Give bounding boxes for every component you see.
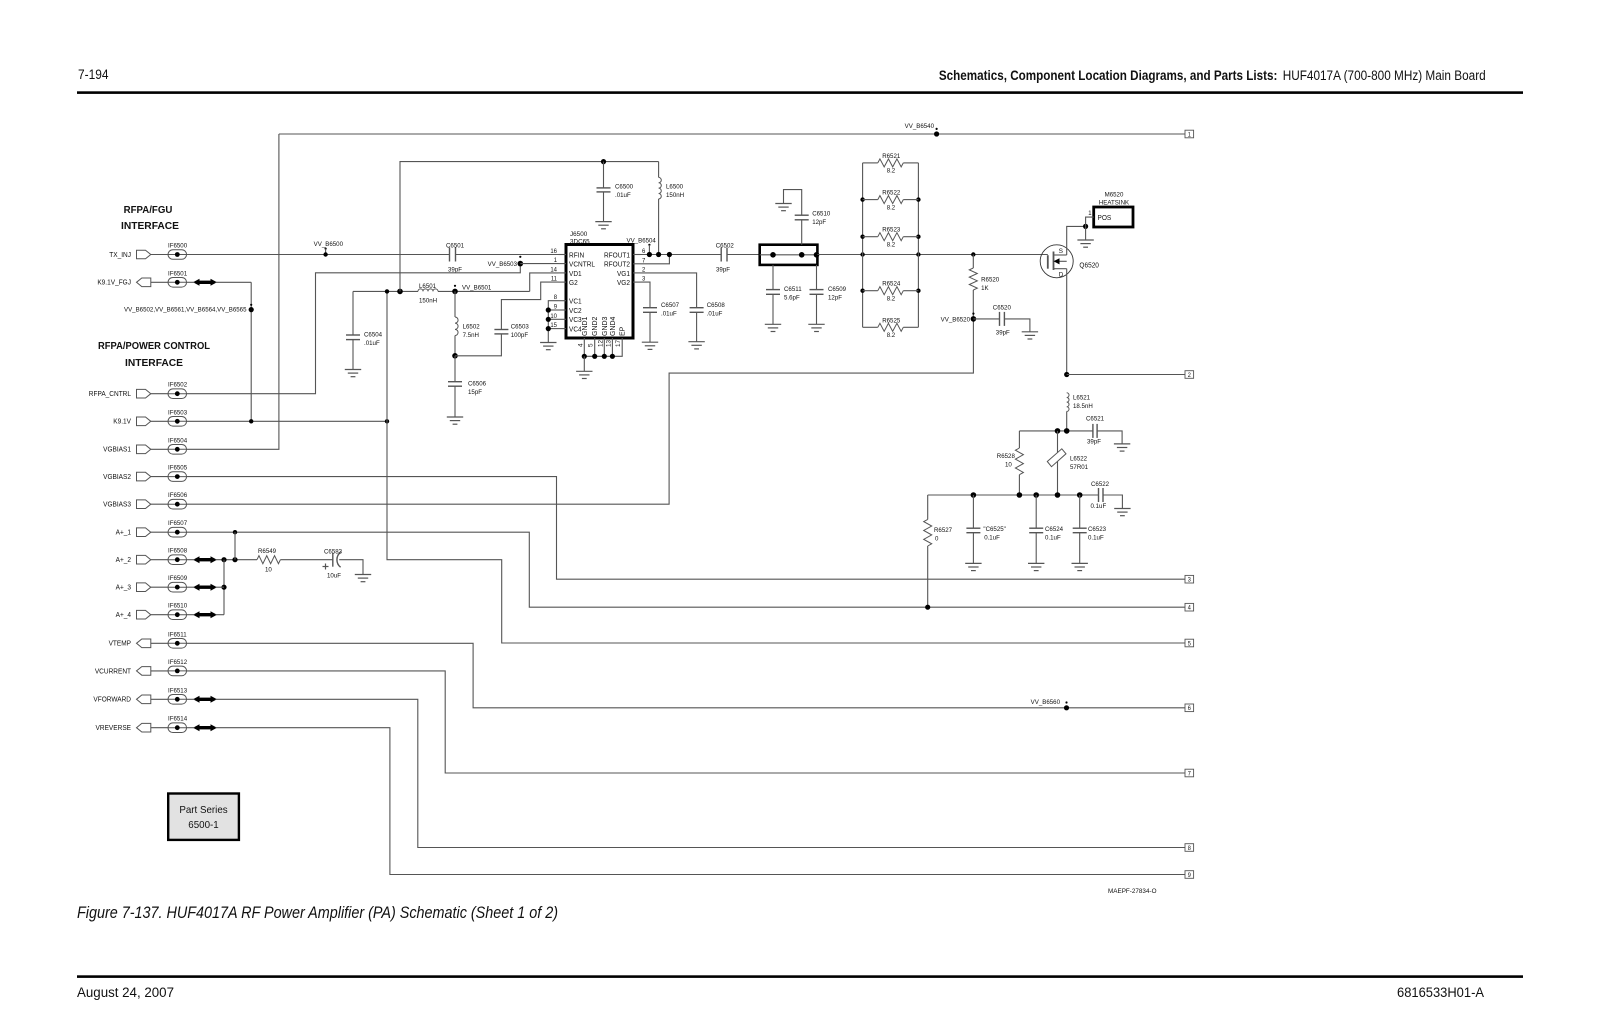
svg-text:GND3: GND3 <box>602 316 609 336</box>
ground at C6525 <box>965 563 981 570</box>
svg-text:M6520: M6520 <box>1105 192 1124 199</box>
ground at C6508 <box>688 342 704 349</box>
wire VG2 pin 3 to C6507 <box>641 282 651 308</box>
header box 9 <box>1185 871 1194 879</box>
resistor R6528 10 <box>997 431 1024 495</box>
node VV_B6502,VV_B6561,VV_B6564,VV_B6565 <box>124 304 254 314</box>
connector IF6507 A+_1 <box>116 520 188 537</box>
svg-text:16: 16 <box>550 248 557 255</box>
svg-text:VV_B6502,VV_B6561,VV_B6564,VV_: VV_B6502,VV_B6561,VV_B6564,VV_B6565 <box>124 307 247 314</box>
connector IF6503 K9.1V <box>113 409 187 426</box>
ferrite L6522 57R01 <box>1047 431 1088 495</box>
resistor R6523 8.2 <box>863 227 919 249</box>
ground at VC bus <box>540 343 556 350</box>
wire VC1-VC4 bus to ground <box>546 301 559 343</box>
wire K9.1V feed riser to supply node and down to header 5 <box>387 291 1185 643</box>
svg-text:Part Series: Part Series <box>179 804 227 816</box>
svg-text:IF6509: IF6509 <box>168 575 187 582</box>
svg-text:Figure 7-137. HUF4017A RF Powe: Figure 7-137. HUF4017A RF Power Amplifie… <box>77 904 558 922</box>
svg-text:R6521: R6521 <box>882 153 900 160</box>
svg-text:C6506: C6506 <box>468 381 486 388</box>
resistor R6525 8.2 <box>863 317 919 339</box>
svg-text:VC4: VC4 <box>569 327 582 334</box>
resistor R6520 1K <box>969 255 999 319</box>
bus segment after IF6501 <box>187 279 217 286</box>
svg-text:VC3: VC3 <box>569 317 582 324</box>
svg-text:L6522: L6522 <box>1070 456 1087 463</box>
svg-text:IF6510: IF6510 <box>168 603 187 610</box>
wire VG1 pin 2 to C6508 <box>641 273 697 308</box>
svg-text:7-194: 7-194 <box>78 67 109 82</box>
svg-text:C6583: C6583 <box>324 549 342 556</box>
svg-text:GND4: GND4 <box>610 316 617 336</box>
ground at C6520 <box>1022 332 1038 339</box>
capacitor C6501 39pF <box>446 242 464 273</box>
svg-text:8.2: 8.2 <box>887 204 896 211</box>
node VV_B6501 <box>452 285 491 295</box>
resistor R6522 8.2 <box>863 190 919 212</box>
inductor L6521 18.5nH <box>1067 393 1093 431</box>
wire VFORWARD to header 8 <box>216 699 1186 847</box>
capacitor C6520 39pF <box>973 305 1030 337</box>
svg-text:8.2: 8.2 <box>887 296 896 303</box>
svg-text:VGBIAS2: VGBIAS2 <box>103 474 131 481</box>
wire G2 pin 11 to C6503 <box>501 282 558 329</box>
svg-text:8.2: 8.2 <box>887 332 896 339</box>
svg-text:VV_B6540: VV_B6540 <box>905 123 935 130</box>
svg-text:R6523: R6523 <box>882 227 900 234</box>
wire VTEMP to header 6 <box>187 643 1185 708</box>
figure caption <box>77 904 558 922</box>
svg-text:D: D <box>1059 272 1064 279</box>
capacitor C6500 .01uF <box>597 159 634 222</box>
svg-text:VGBIAS1: VGBIAS1 <box>103 447 131 454</box>
svg-text:A+_4: A+_4 <box>116 612 131 619</box>
svg-text:GND1: GND1 <box>582 316 589 336</box>
svg-text:VG1: VG1 <box>617 271 630 278</box>
IC J6500 bottom pin names GND1-GND4 EP <box>582 316 589 336</box>
svg-text:VG2: VG2 <box>617 280 630 287</box>
svg-text:7.5nH: 7.5nH <box>463 332 480 339</box>
IC J6500 3DC65 body <box>566 231 633 338</box>
svg-text:11: 11 <box>551 276 558 283</box>
IC J6500 left pin stubs and numbers <box>550 248 566 329</box>
svg-text:IF6511: IF6511 <box>168 631 187 638</box>
footer document number <box>1397 985 1484 1000</box>
svg-text:R6524: R6524 <box>882 281 900 288</box>
svg-text:C6523: C6523 <box>1088 526 1106 533</box>
svg-text:R6520: R6520 <box>981 277 999 284</box>
svg-text:0.1uF: 0.1uF <box>1088 534 1104 541</box>
wire VREVERSE to header 9 <box>216 728 1186 875</box>
svg-text:39pF: 39pF <box>1087 438 1101 445</box>
inductor L6502 7.5nH <box>455 291 480 355</box>
title RFPA/FGU INTERFACE <box>121 205 179 232</box>
svg-text:VFORWARD: VFORWARD <box>93 697 131 704</box>
svg-text:C6511: C6511 <box>784 286 802 293</box>
svg-text:VV_B6500: VV_B6500 <box>314 241 344 248</box>
svg-text:10uF: 10uF <box>327 573 341 580</box>
capacitor C6509 12pF <box>810 265 847 324</box>
svg-text:L6501: L6501 <box>419 283 436 290</box>
svg-text:A+_2: A+_2 <box>116 557 131 564</box>
wire VCNTRL pin 1 line <box>520 263 558 265</box>
capacitor C6523 0.1uF <box>1073 495 1107 563</box>
svg-text:1K: 1K <box>981 285 989 292</box>
header box 6 <box>1185 704 1194 712</box>
svg-text:HEATSINK: HEATSINK <box>1099 200 1130 207</box>
svg-text:August 24, 2007: August 24, 2007 <box>77 985 174 1000</box>
svg-text:VV_B6560: VV_B6560 <box>1031 699 1061 706</box>
ground at C6506 <box>447 417 463 424</box>
svg-text:INTERFACE: INTERFACE <box>121 221 179 232</box>
header box 5 <box>1185 639 1194 647</box>
svg-text:.01uF: .01uF <box>661 310 677 317</box>
connector IF6510 A+_4 <box>116 603 188 620</box>
svg-text:150nH: 150nH <box>419 298 437 305</box>
ground at C6524 <box>1028 563 1044 570</box>
node VV_B6503 <box>488 256 523 269</box>
connector IF6513 VFORWARD <box>93 687 187 704</box>
svg-text:0: 0 <box>935 536 939 543</box>
capacitor C6506 15pF <box>448 356 486 417</box>
node VV_B6504 <box>627 238 657 258</box>
svg-text:VTEMP: VTEMP <box>109 641 132 648</box>
svg-text:0.1uF: 0.1uF <box>1091 503 1107 510</box>
connector IF6504 VGBIAS1 <box>103 437 187 454</box>
ground at C6509 <box>808 324 824 331</box>
IC J6500 bottom pin stubs and numbers <box>577 338 622 347</box>
svg-text:J6500: J6500 <box>570 231 587 238</box>
svg-text:VC2: VC2 <box>569 308 582 315</box>
svg-text:VV_B6503: VV_B6503 <box>488 261 518 268</box>
capacitor C6521 39pF <box>1086 416 1122 446</box>
svg-text:C6521: C6521 <box>1086 416 1104 423</box>
wire RF line through resistor ladder to gate <box>817 252 1047 256</box>
node VV_B6540 <box>905 123 940 137</box>
svg-text:RFOUT2: RFOUT2 <box>604 262 630 269</box>
svg-text:RFPA_CNTRL: RFPA_CNTRL <box>89 391 131 398</box>
wire VGBIAS2 to header 3 <box>187 477 1185 580</box>
svg-text:18.5nH: 18.5nH <box>1073 403 1093 410</box>
svg-text:14: 14 <box>550 266 557 273</box>
svg-text:10: 10 <box>1005 462 1012 469</box>
svg-text:12pF: 12pF <box>828 294 842 301</box>
wire source to heatsink junction <box>1067 224 1089 255</box>
svg-text:17: 17 <box>615 339 622 347</box>
wire A+_1 to header 4 line <box>187 530 1185 607</box>
svg-text:3DC65: 3DC65 <box>570 239 590 246</box>
header box 3 <box>1185 575 1194 583</box>
connector IF6506 VGBIAS3 <box>103 492 187 509</box>
svg-text:K9.1V: K9.1V <box>113 419 131 426</box>
svg-text:S: S <box>1059 248 1064 255</box>
svg-text:VD1: VD1 <box>569 271 582 278</box>
wire GND pins bus to ground <box>582 346 623 372</box>
svg-text:POS: POS <box>1098 215 1112 222</box>
header title <box>939 68 1486 83</box>
bus segment after IF6513 <box>187 696 217 703</box>
svg-text:C6524: C6524 <box>1045 526 1063 533</box>
wire A+_2 row <box>216 557 258 562</box>
svg-text:C6507: C6507 <box>661 302 679 309</box>
svg-text:EP: EP <box>620 326 627 336</box>
svg-text:6500-1: 6500-1 <box>188 819 219 831</box>
ground at heatsink <box>1077 240 1093 247</box>
svg-text:0.1uF: 0.1uF <box>1045 534 1061 541</box>
header page number 7-194 <box>78 67 109 82</box>
connector IF6509 A+_3 <box>116 575 188 592</box>
part series 6500-1 box <box>168 794 239 840</box>
header box 4 <box>1185 603 1194 611</box>
drawing number MAEPF-27834-O <box>1108 888 1157 895</box>
svg-text:IF6501: IF6501 <box>168 270 187 277</box>
node L6502/C6503/C6506 junction <box>452 353 458 359</box>
IC J6500 right pin stubs and numbers <box>633 248 646 283</box>
svg-text:VGBIAS3: VGBIAS3 <box>103 502 131 509</box>
capacitor C6508 .01uF <box>690 302 725 342</box>
svg-text:"C6525": "C6525" <box>983 526 1006 533</box>
svg-text:15pF: 15pF <box>468 389 482 396</box>
wire A+ tie verticals <box>221 532 235 615</box>
heatsink M6520 <box>1086 192 1133 228</box>
connector IF6501 K9.1V_FGJ <box>97 270 187 287</box>
ground at C6510 <box>775 204 791 211</box>
svg-text:VV_B6501: VV_B6501 <box>462 285 492 292</box>
junction L6500 on RFOUT1 line <box>656 252 661 257</box>
svg-text:R6549: R6549 <box>258 548 276 555</box>
svg-text:57R01: 57R01 <box>1070 464 1088 471</box>
footer date <box>77 985 174 1000</box>
svg-text:C6502: C6502 <box>716 243 734 250</box>
wire RFOUT2 pin 7 jog <box>641 252 673 264</box>
wire TX_INJ / RFIN line <box>187 254 559 256</box>
svg-text:C6520: C6520 <box>993 305 1011 312</box>
svg-text:IF6505: IF6505 <box>168 465 187 472</box>
svg-text:10: 10 <box>265 567 272 574</box>
svg-text:VREVERSE: VREVERSE <box>96 725 132 732</box>
wire K9.1V row <box>187 419 390 423</box>
ground at C6583 <box>355 575 371 582</box>
wire riser to C6500/L6500 rail <box>400 162 659 292</box>
wire heatsink junction to ground <box>1085 226 1087 240</box>
svg-text:IF6507: IF6507 <box>168 520 187 527</box>
ground at C6511 <box>765 324 781 331</box>
wire VGBIAS1 to top bus <box>187 134 279 449</box>
svg-text:VCURRENT: VCURRENT <box>95 668 132 675</box>
svg-text:VV_B6520: VV_B6520 <box>941 317 971 324</box>
svg-text:Q6520: Q6520 <box>1079 263 1099 270</box>
svg-text:IF6503: IF6503 <box>168 409 187 416</box>
svg-text:RFPA/FGU: RFPA/FGU <box>124 205 173 216</box>
resistor ladder rails <box>860 163 920 327</box>
svg-text:MAEPF-27834-O: MAEPF-27834-O <box>1108 888 1157 895</box>
svg-text:RFOUT1: RFOUT1 <box>604 252 630 259</box>
svg-text:.01uF: .01uF <box>707 310 723 317</box>
connector IF6511 VTEMP <box>109 631 187 648</box>
wire RFOUT1 line <box>641 254 760 256</box>
ground at C6521 <box>1114 444 1130 451</box>
capacitor C6507 .01uF <box>643 302 679 342</box>
wire supply node line VV_B6501 <box>353 289 530 295</box>
svg-text:R6527: R6527 <box>934 527 952 534</box>
wire R6549 to C6583 <box>280 559 332 561</box>
connector IF6500 TX_INJ <box>109 243 187 260</box>
svg-text:C6501: C6501 <box>446 242 464 249</box>
svg-text:150nH: 150nH <box>666 192 684 199</box>
svg-text:5: 5 <box>588 343 595 347</box>
svg-text:VC1: VC1 <box>569 299 582 306</box>
resistor R6521 8.2 <box>863 153 919 175</box>
svg-text:R6528: R6528 <box>997 453 1015 460</box>
svg-text:C6509: C6509 <box>828 286 846 293</box>
svg-text:RFPA/POWER CONTROL: RFPA/POWER CONTROL <box>98 341 211 352</box>
svg-text:VCNTRL: VCNTRL <box>569 262 595 269</box>
svg-text:G2: G2 <box>569 280 578 287</box>
svg-text:C6508: C6508 <box>707 302 725 309</box>
svg-text:GND2: GND2 <box>592 316 599 336</box>
svg-text:L6521: L6521 <box>1073 395 1090 402</box>
capacitor C6511 5.6pF <box>766 265 802 324</box>
connector IF6505 VGBIAS2 <box>103 465 187 482</box>
capacitor C6525 0.1uF <box>966 495 1006 563</box>
node VV_B6520 <box>941 313 977 324</box>
svg-text:A+_1: A+_1 <box>116 530 131 537</box>
title RFPA/POWER CONTROL INTERFACE <box>98 341 211 369</box>
svg-text:TX_INJ: TX_INJ <box>109 252 131 259</box>
IC J6500 right pin names <box>604 252 630 287</box>
svg-text:0.1uF: 0.1uF <box>984 534 1000 541</box>
IC J6500 left pin names <box>569 252 595 333</box>
svg-text:6816533H01-A: 6816533H01-A <box>1397 985 1484 1000</box>
inductor L6500 150nH <box>659 162 685 255</box>
connector IF6508 A+_2 <box>116 548 188 565</box>
svg-text:IF6500: IF6500 <box>168 243 187 250</box>
svg-text:100pF: 100pF <box>511 332 528 339</box>
svg-text:4: 4 <box>577 343 584 347</box>
bus segment after IF6509 <box>187 584 217 591</box>
node VV_B6500 <box>314 241 344 257</box>
svg-text:VV_B6504: VV_B6504 <box>627 238 657 245</box>
ground at C6522 <box>1114 509 1130 516</box>
svg-text:39pF: 39pF <box>716 266 730 273</box>
svg-text:C6504: C6504 <box>364 332 382 339</box>
svg-text:C6500: C6500 <box>615 184 633 191</box>
wire A+_4 row <box>216 614 225 616</box>
svg-text:8.2: 8.2 <box>887 242 896 249</box>
svg-text:C6510: C6510 <box>812 211 830 218</box>
svg-text:IF6514: IF6514 <box>168 716 187 723</box>
header box 2 <box>1185 371 1194 379</box>
svg-text:1: 1 <box>554 257 558 264</box>
svg-text:12: 12 <box>597 339 604 347</box>
footer rule <box>77 975 1523 978</box>
svg-text:IF6512: IF6512 <box>168 659 187 666</box>
svg-text:INTERFACE: INTERFACE <box>125 358 183 369</box>
connector IF6514 VREVERSE <box>96 716 188 733</box>
wire RFPA_CNTRL to VCNTRL <box>187 264 521 394</box>
resistor R6527 0 <box>924 495 953 610</box>
svg-text:.01uF: .01uF <box>364 340 380 347</box>
svg-text:IF6508: IF6508 <box>168 548 187 555</box>
ground at C6500 <box>595 222 611 229</box>
ground at C6507 <box>642 342 658 349</box>
stripline coupler box <box>760 245 820 265</box>
resistor R6549 10 <box>257 548 280 574</box>
svg-text:L6500: L6500 <box>666 184 683 191</box>
capacitor C6583 10uF polarized <box>323 549 343 580</box>
svg-text:C6503: C6503 <box>511 324 529 331</box>
svg-text:R6522: R6522 <box>882 190 900 197</box>
ground at C6504 <box>345 370 361 377</box>
wire VGBIAS3 to gate bias node VV_B6520 <box>187 319 974 504</box>
bus segment after IF6508 <box>187 556 217 563</box>
ground at IC GND bus <box>576 371 592 378</box>
wire C6583 to ground <box>339 560 363 575</box>
svg-text:IF6506: IF6506 <box>168 492 187 499</box>
svg-text:.01uF: .01uF <box>615 192 631 199</box>
svg-text:Schematics, Component Location: Schematics, Component Location Diagrams,… <box>939 68 1486 83</box>
header box 1 <box>1185 130 1194 138</box>
svg-text:R6525: R6525 <box>882 317 900 324</box>
svg-text:5.6pF: 5.6pF <box>784 294 800 301</box>
svg-text:C6522: C6522 <box>1091 481 1109 488</box>
svg-text:A+_3: A+_3 <box>116 585 131 592</box>
header box 7 <box>1185 769 1194 777</box>
wire drain matching node <box>1019 428 1093 434</box>
svg-text:13: 13 <box>605 339 612 347</box>
bus segment after IF6514 <box>187 724 217 731</box>
svg-text:IF6502: IF6502 <box>168 382 187 389</box>
header box 8 <box>1185 844 1194 852</box>
svg-text:RFIN: RFIN <box>569 252 584 259</box>
transistor Q6520 MOSFET <box>1040 245 1099 279</box>
svg-text:39pF: 39pF <box>996 329 1010 336</box>
svg-text:12pF: 12pF <box>812 219 826 226</box>
svg-text:IF6513: IF6513 <box>168 687 187 694</box>
capacitor C6503 100pF <box>455 324 529 356</box>
connector IF6512 VCURRENT <box>95 659 188 676</box>
resistor R6524 8.2 <box>863 281 919 303</box>
svg-text:1: 1 <box>1088 210 1092 217</box>
capacitor C6502 39pF <box>716 243 734 274</box>
svg-text:L6502: L6502 <box>463 324 480 331</box>
wire top bus VV_B6540 to header 1 <box>279 133 1185 135</box>
wire K9.1V_FGJ to K9.1V junction <box>216 282 252 421</box>
header rule <box>77 91 1523 94</box>
wire VCURRENT to header 7 <box>187 671 1185 773</box>
wire A+_3 row <box>216 586 225 588</box>
svg-text:8.2: 8.2 <box>887 168 896 175</box>
capacitor C6522 0.1uF <box>1091 481 1123 510</box>
wire VD1 pin 14 riser <box>530 273 559 292</box>
ground at C6523 <box>1072 563 1088 570</box>
svg-text:IF6504: IF6504 <box>168 437 187 444</box>
capacitor C6510 12pF <box>784 190 831 245</box>
inductor L6501 150nH <box>418 283 438 305</box>
bus segment after IF6510 <box>187 611 217 618</box>
capacitor C6524 0.1uF <box>1029 495 1063 563</box>
wire drain to header 2 <box>1064 269 1185 377</box>
capacitor C6504 .01uF <box>346 291 382 369</box>
wire decoupling node <box>928 492 1099 498</box>
node VV_B6560 <box>1031 699 1069 710</box>
connector IF6502 RFPA_CNTRL <box>89 382 188 399</box>
svg-text:K9.1V_FGJ: K9.1V_FGJ <box>97 280 131 287</box>
